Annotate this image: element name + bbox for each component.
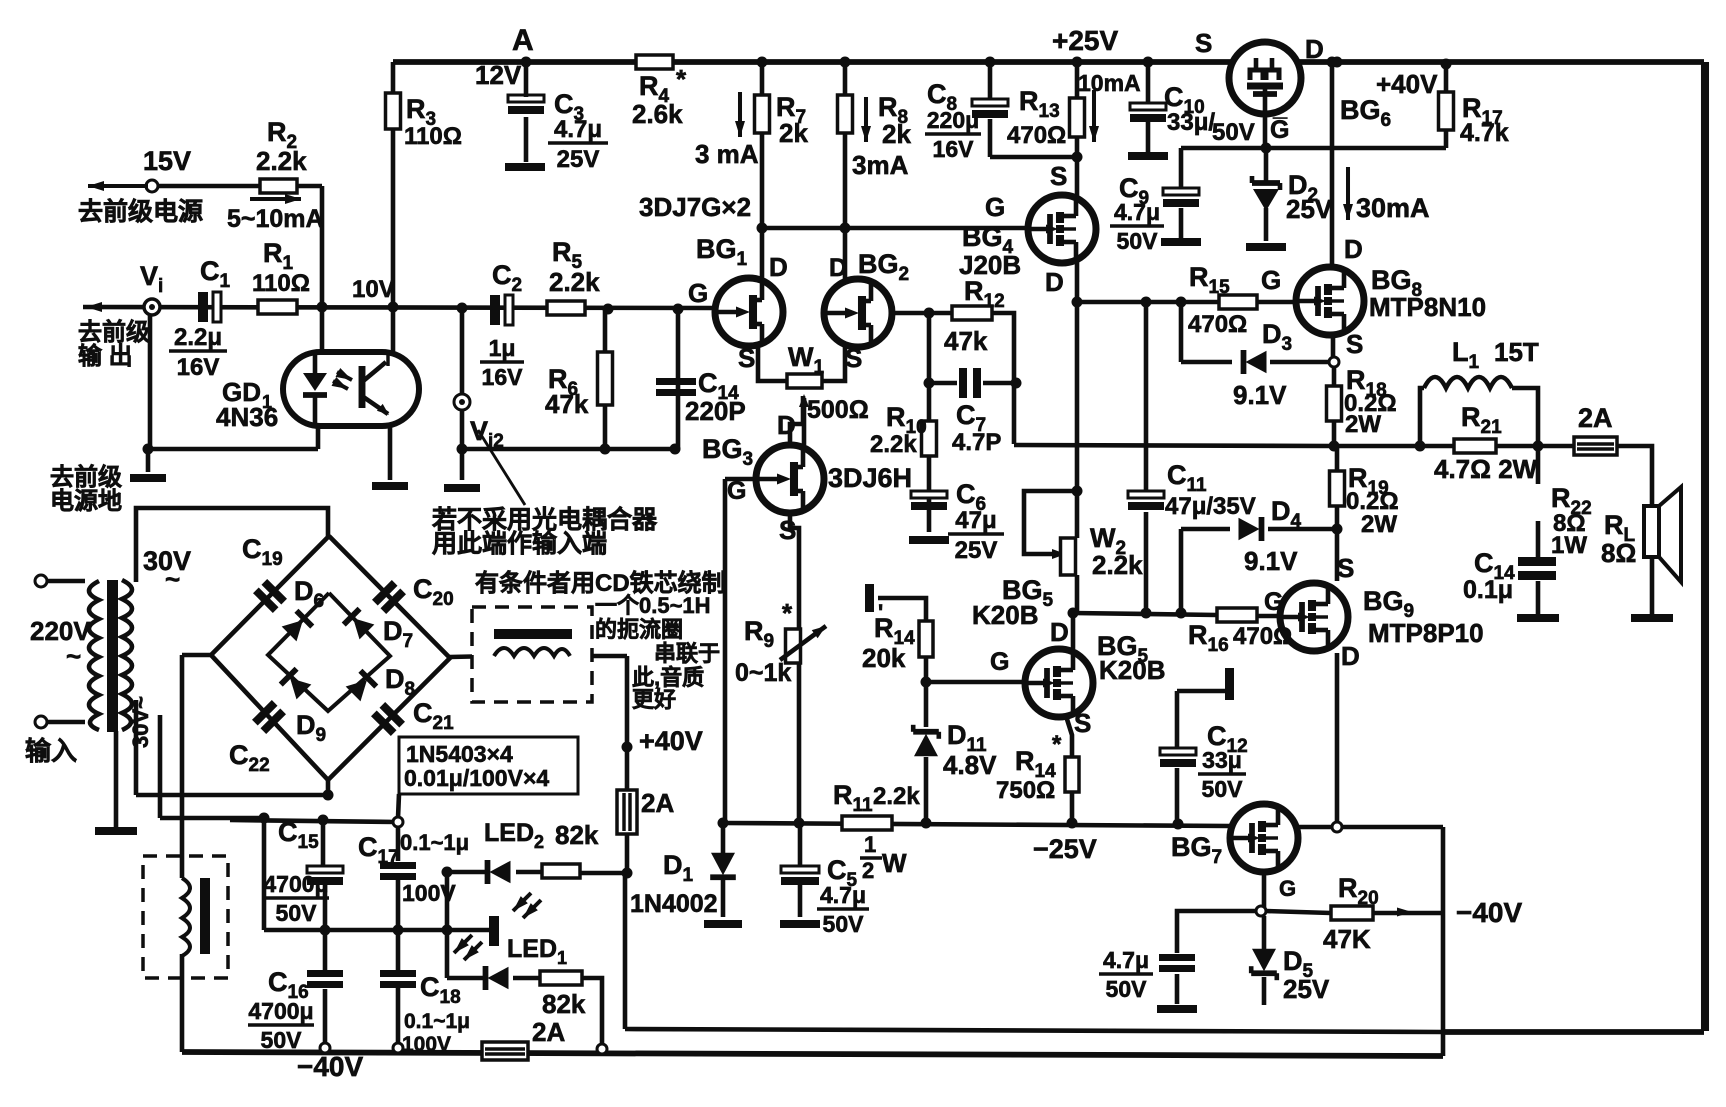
svg-text:2W: 2W: [1345, 411, 1381, 438]
svg-text:S: S: [1195, 28, 1212, 58]
svg-text:S: S: [1074, 708, 1091, 738]
svg-text:MTP8P10: MTP8P10: [1368, 618, 1484, 648]
svg-text:2A: 2A: [1578, 403, 1613, 433]
svg-text:G: G: [990, 648, 1009, 676]
svg-text:470Ω: 470Ω: [1188, 311, 1247, 338]
svg-text:ʹ: ʹ: [878, 600, 883, 625]
svg-text:4.7Ω 2W: 4.7Ω 2W: [1434, 454, 1538, 484]
svg-text:2A: 2A: [641, 788, 674, 818]
svg-text:输入: 输入: [25, 736, 77, 766]
svg-text:S: S: [1337, 553, 1354, 583]
svg-text:D: D: [1344, 234, 1363, 264]
svg-text:K20B: K20B: [1099, 655, 1165, 685]
svg-text:25V: 25V: [557, 146, 600, 173]
svg-text:去前级电源: 去前级电源: [78, 197, 203, 226]
svg-text:电源地: 电源地: [50, 488, 122, 515]
svg-text:220P: 220P: [685, 396, 746, 426]
svg-text:8Ω: 8Ω: [1601, 538, 1636, 568]
svg-text:50V: 50V: [1202, 776, 1244, 802]
svg-text:−40V: −40V: [1456, 897, 1522, 928]
svg-text:4700μ: 4700μ: [263, 871, 328, 897]
svg-text:82k: 82k: [542, 989, 586, 1019]
svg-text:去前级: 去前级: [50, 463, 122, 491]
svg-text:MTP8N10: MTP8N10: [1369, 292, 1486, 322]
svg-text:10V: 10V: [352, 276, 395, 303]
svg-text:更好: 更好: [632, 687, 676, 712]
svg-text:−25V: −25V: [1033, 834, 1097, 864]
svg-text:82k: 82k: [555, 820, 599, 850]
svg-text:33μ/: 33μ/: [1167, 109, 1215, 136]
svg-text:D: D: [769, 252, 788, 282]
svg-text:2.2k: 2.2k: [873, 783, 920, 810]
svg-text:47μ: 47μ: [955, 507, 996, 534]
svg-text:110Ω: 110Ω: [404, 123, 462, 150]
svg-text:15T: 15T: [1494, 337, 1539, 367]
svg-text:16V: 16V: [177, 354, 220, 381]
svg-text:470Ω: 470Ω: [1007, 122, 1066, 149]
svg-text:2.2k: 2.2k: [549, 267, 600, 297]
svg-text:0.1μ: 0.1μ: [1463, 576, 1513, 604]
svg-text:~: ~: [165, 564, 180, 594]
svg-text:50V: 50V: [1212, 119, 1255, 146]
svg-text:100V: 100V: [402, 880, 456, 906]
svg-text:1W: 1W: [1551, 532, 1587, 559]
svg-text:G̅: G̅: [1270, 116, 1289, 144]
svg-text:50V: 50V: [1106, 976, 1148, 1002]
svg-text:S: S: [845, 343, 862, 373]
svg-text:1: 1: [864, 832, 876, 857]
svg-text:220V: 220V: [30, 616, 91, 646]
svg-text:W: W: [882, 848, 907, 878]
svg-text:16V: 16V: [482, 364, 524, 390]
svg-text:G: G: [1279, 876, 1296, 901]
svg-text:3DJ7G×2: 3DJ7G×2: [639, 192, 751, 222]
svg-text:S: S: [779, 515, 796, 545]
svg-text:3DJ6H: 3DJ6H: [828, 463, 912, 493]
svg-text:30V~: 30V~: [128, 696, 153, 748]
svg-text:G: G: [1264, 588, 1283, 616]
svg-text:10mA: 10mA: [1078, 70, 1141, 96]
svg-text:2.2k: 2.2k: [1092, 550, 1143, 580]
svg-text:16V: 16V: [933, 136, 975, 162]
svg-text:470Ω: 470Ω: [1233, 623, 1292, 650]
svg-text:D: D: [777, 410, 796, 440]
svg-text:33μ: 33μ: [1202, 747, 1242, 773]
svg-text:*: *: [782, 598, 793, 628]
svg-text:9.1V: 9.1V: [1233, 380, 1287, 410]
svg-text:G: G: [1261, 265, 1281, 295]
svg-text:去前级: 去前级: [78, 318, 150, 346]
svg-text:1N4002: 1N4002: [630, 890, 718, 918]
svg-text:4.7P: 4.7P: [952, 429, 1001, 456]
svg-text:3 mA: 3 mA: [695, 139, 759, 169]
svg-text:47μ/35V: 47μ/35V: [1165, 493, 1256, 520]
svg-text:S: S: [1346, 329, 1363, 359]
svg-text:D: D: [829, 254, 847, 282]
svg-text:47k: 47k: [944, 326, 988, 356]
svg-text:500Ω: 500Ω: [807, 396, 869, 424]
svg-text:+40V: +40V: [639, 726, 703, 756]
svg-text:220μ: 220μ: [927, 107, 979, 133]
svg-text:一个0.5~1H: 一个0.5~1H: [595, 593, 711, 618]
svg-text:1N5403×4: 1N5403×4: [406, 741, 513, 767]
svg-text:2W: 2W: [1361, 511, 1397, 538]
svg-text:50V: 50V: [823, 911, 865, 937]
svg-text:+25V: +25V: [1052, 25, 1118, 56]
svg-text:D: D: [1341, 641, 1360, 671]
svg-text:D: D: [1045, 267, 1064, 297]
svg-text:G: G: [688, 278, 708, 308]
svg-text:S: S: [1050, 161, 1067, 191]
svg-text:2.2k: 2.2k: [870, 431, 917, 458]
svg-text:+40V: +40V: [1376, 69, 1438, 99]
svg-text:12V: 12V: [475, 60, 522, 90]
svg-text:D: D: [1305, 34, 1324, 64]
svg-text:4.7μ: 4.7μ: [554, 116, 602, 143]
svg-text:A: A: [512, 24, 534, 57]
svg-text:5~10mA: 5~10mA: [227, 205, 324, 233]
svg-text:4.7μ: 4.7μ: [1114, 199, 1160, 225]
svg-text:*: *: [676, 64, 687, 94]
svg-text:110Ω: 110Ω: [252, 270, 310, 297]
svg-text:的扼流圈: 的扼流圈: [595, 617, 683, 642]
svg-text:25V: 25V: [1283, 974, 1330, 1004]
svg-text:2k: 2k: [779, 118, 808, 148]
svg-text:0.01μ/100V×4: 0.01μ/100V×4: [404, 765, 549, 791]
svg-text:用此端作输入端: 用此端作输入端: [432, 529, 607, 558]
svg-text:串联于: 串联于: [654, 641, 720, 666]
svg-text:2.2μ: 2.2μ: [174, 324, 222, 351]
svg-text:50V: 50V: [276, 900, 318, 926]
svg-text:30mA: 30mA: [1356, 193, 1430, 223]
svg-text:47K: 47K: [1323, 924, 1371, 954]
svg-text:~: ~: [66, 641, 81, 671]
svg-text:2.6k: 2.6k: [632, 99, 683, 129]
svg-text:*: *: [1052, 731, 1062, 758]
svg-text:2.2k: 2.2k: [256, 146, 307, 176]
svg-text:0~1k: 0~1k: [735, 659, 791, 687]
svg-text:47k: 47k: [545, 389, 589, 419]
svg-text:2: 2: [862, 858, 874, 883]
svg-text:25V: 25V: [955, 537, 998, 564]
svg-text:4.7μ: 4.7μ: [820, 882, 866, 908]
svg-text:4.8V: 4.8V: [943, 750, 997, 780]
svg-text:4N36: 4N36: [216, 402, 278, 432]
svg-text:50V: 50V: [1117, 228, 1159, 254]
svg-text:0.1~1μ: 0.1~1μ: [400, 830, 469, 855]
svg-text:1μ: 1μ: [489, 335, 516, 361]
svg-text:4.7μ: 4.7μ: [1103, 947, 1149, 973]
svg-text:−40V: −40V: [297, 1051, 363, 1082]
svg-text:D: D: [1050, 617, 1069, 647]
svg-text:G: G: [985, 192, 1005, 222]
svg-text:4.7k: 4.7k: [1460, 119, 1509, 147]
svg-text:20k: 20k: [862, 643, 906, 673]
svg-text:100V: 100V: [402, 1033, 451, 1056]
svg-text:15V: 15V: [143, 146, 191, 176]
svg-text:3mA: 3mA: [852, 150, 909, 180]
svg-text:K20B: K20B: [972, 600, 1038, 630]
svg-text:25V: 25V: [1286, 194, 1333, 224]
svg-text:0.1~1μ: 0.1~1μ: [404, 1010, 470, 1033]
svg-text:9.1V: 9.1V: [1244, 546, 1298, 576]
svg-text:4700μ: 4700μ: [248, 998, 313, 1024]
svg-text:2A: 2A: [532, 1017, 565, 1047]
svg-text:2k: 2k: [882, 119, 911, 149]
svg-text:S: S: [738, 343, 755, 373]
svg-text:G: G: [727, 477, 746, 505]
svg-text:输 出: 输 出: [78, 342, 133, 370]
svg-text:750Ω: 750Ω: [996, 777, 1055, 804]
svg-text:50V: 50V: [261, 1027, 303, 1053]
